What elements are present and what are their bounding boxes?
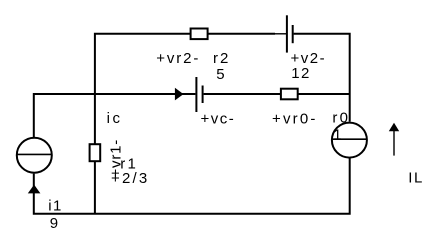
battery vc short plate	[202, 86, 204, 104]
arrow ic current direction on middle wire	[175, 88, 184, 101]
current source i1 bar	[17, 153, 52, 155]
battery vc long plate	[195, 77, 197, 112]
svg-text:12: 12	[291, 65, 311, 82]
svg-text:+vr2-: +vr2-	[156, 50, 200, 67]
wire bottom rail with both lower verticals	[34, 158, 350, 214]
arrow IL annotation shaft	[393, 131, 395, 156]
svg-text:IL: IL	[408, 170, 424, 187]
battery v2 short plate	[292, 25, 294, 43]
arrow i1 current direction on left wire	[28, 185, 41, 194]
wire top-right corner down to current-source circle	[294, 34, 350, 122]
svg-text:9: 9	[50, 215, 60, 232]
svg-text:i1: i1	[48, 198, 63, 215]
svg-text:+vc-: +vc-	[201, 111, 236, 128]
svg-text:r0: r0	[332, 109, 350, 126]
svg-text:r2: r2	[213, 50, 230, 67]
svg-text:+vr0-: +vr0-	[272, 111, 318, 128]
wire middle right segment through r0 to right vertical	[204, 93, 350, 95]
resistor R2 body	[191, 29, 208, 40]
current source r0 circle	[332, 123, 367, 158]
svg-text:1: 1	[333, 126, 343, 143]
current source i1 circle	[17, 138, 52, 173]
wire top: node between r2/v2 branch	[95, 34, 275, 214]
wire middle horizontal + left vertical down to source i1	[34, 94, 196, 137]
wire lead into battery v2	[275, 33, 286, 35]
svg-text:5: 5	[216, 66, 226, 83]
battery v2 long plate	[286, 15, 288, 52]
resistor R1 body	[90, 144, 101, 161]
svg-text:ic: ic	[107, 110, 123, 127]
arrow IL annotation head	[389, 123, 399, 132]
svg-text:+2/3: +2/3	[111, 170, 149, 187]
resistor R0 body	[281, 89, 298, 100]
current source r0 bar	[332, 138, 367, 140]
